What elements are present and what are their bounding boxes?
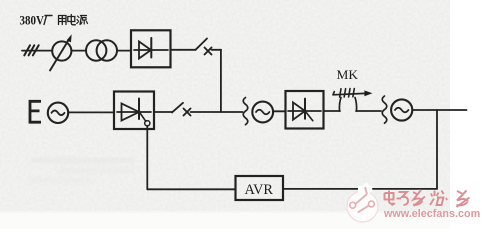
- wire: [171, 49, 196, 51]
- label AVR: [245, 182, 274, 198]
- wire: generator output: [412, 109, 466, 111]
- switch (top) x mark: [205, 48, 212, 55]
- switch (middle) blade: [172, 103, 183, 113]
- wire: gate down to AVR loop: [146, 126, 148, 190]
- wire: AVR bottom horizontal left segment: [147, 188, 235, 190]
- variac (voltage regulator): [52, 41, 71, 60]
- wire: [273, 110, 285, 112]
- three-phase hatch marks: [24, 45, 38, 55]
- AVR box: [236, 176, 284, 200]
- wire: [212, 49, 222, 51]
- transformer T: [86, 40, 106, 60]
- thyristor inside rotating rectifier: [288, 110, 321, 112]
- switch (middle) x mark: [184, 109, 191, 116]
- watermark logo (elecfans): [347, 185, 378, 223]
- wire: [117, 50, 131, 52]
- thyristor inside: [117, 111, 151, 113]
- generator G: [391, 99, 412, 120]
- field breaker MK: right post: [355, 98, 357, 112]
- rectifier box (top): [131, 30, 171, 67]
- svg-text:www.elecfans.com: www.elecfans.com: [383, 208, 480, 220]
- thyristor box (regulator): [114, 92, 154, 130]
- svg-text:AVR: AVR: [245, 182, 274, 198]
- wire: vertical from top branch to node: [220, 50, 222, 112]
- label char 用: [59, 16, 67, 25]
- label E: [29, 100, 41, 123]
- pilot exciter (AC source E): [48, 103, 68, 123]
- svg-text:380V: 380V: [20, 13, 45, 28]
- wire: node to exciter field: [191, 111, 243, 113]
- watermark text 电子发烧友: [385, 190, 470, 207]
- wire: top feeder start: [22, 50, 52, 52]
- field breaker MK: hatched bar with arrow: [333, 92, 365, 95]
- wire: AVR bottom horizontal right segment: [283, 188, 437, 190]
- watermark text www.elecfans.com: [383, 208, 481, 221]
- gate with circle: [140, 113, 146, 121]
- label char 厂: [44, 16, 52, 25]
- svg-text:MK: MK: [337, 68, 359, 82]
- label char 电: [68, 15, 76, 25]
- exciter field winding (squiggle): [243, 98, 248, 125]
- label MK: [337, 68, 359, 82]
- switch (top) blade: [196, 39, 208, 50]
- ghost smudges (scan bleed-through): [28, 158, 135, 183]
- AC exciter: [252, 102, 273, 123]
- wire: [154, 111, 172, 113]
- wire: [68, 111, 114, 113]
- label char 源: [77, 16, 88, 25]
- wire: [356, 110, 381, 112]
- wire: [324, 110, 341, 112]
- wire: [71, 50, 86, 52]
- rotating rectifier box: [286, 91, 324, 129]
- field breaker MK: left post: [339, 98, 341, 112]
- generator field winding (squiggle): [382, 96, 387, 123]
- wire: AVR sense vertical: [436, 110, 438, 189]
- diode inside top box: [134, 49, 168, 51]
- label 380V plant supply: 380V: [20, 13, 45, 28]
